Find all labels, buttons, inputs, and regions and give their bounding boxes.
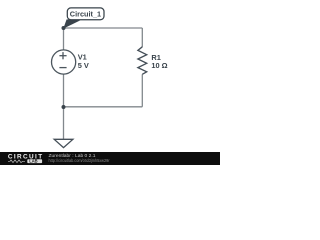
svg-text:10 Ω: 10 Ω	[151, 61, 167, 70]
svg-text:5 V: 5 V	[78, 61, 89, 70]
wire: V1 bottom to bottom junction	[63, 74, 65, 107]
svg-text:LAB: LAB	[29, 158, 37, 163]
footer bar	[0, 152, 220, 165]
label Circuit_1 box	[67, 8, 104, 20]
wire: bottom horizontal net	[64, 106, 143, 108]
wire: resistor R1 bottom to bottom corner	[141, 74, 143, 107]
resistor R1	[138, 47, 147, 75]
wire: left vertical from top corner to V1 top	[63, 28, 65, 50]
node: bottom junction dot	[62, 105, 66, 109]
wire: top horizontal net	[64, 27, 143, 29]
wire: right vertical from top corner to resistor R1 top	[141, 28, 143, 47]
footer logo LAB badge	[27, 159, 42, 163]
footer logo resistor squiggle	[8, 160, 25, 163]
voltage source V1	[52, 50, 76, 74]
wire: junction to ground	[63, 107, 65, 139]
ground	[54, 139, 73, 147]
node: top-left junction dot	[62, 26, 66, 30]
label Circuit_1 callout tail	[63, 19, 80, 28]
svg-text:Circuit_1: Circuit_1	[70, 10, 102, 19]
svg-text:http://circuitlab.com/c6d3jmh5: http://circuitlab.com/c6d3jmh5xw29r	[49, 158, 110, 163]
